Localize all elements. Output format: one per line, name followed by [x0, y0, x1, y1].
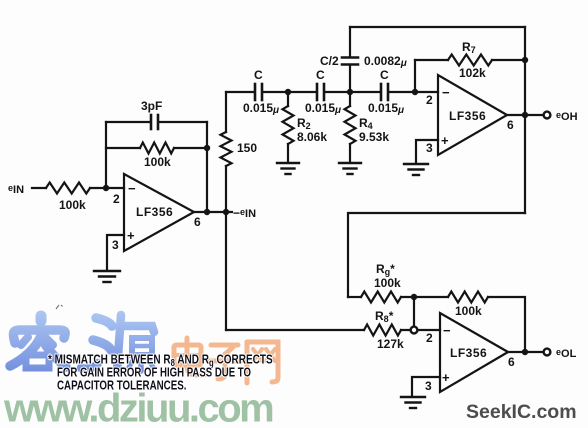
wire C/2 upper stem [349, 27, 351, 56]
svg-text:9.53k: 9.53k [359, 130, 389, 144]
svg-text:R7: R7 [462, 40, 476, 55]
resistor R2 8.06k [283, 106, 294, 144]
capacitor C/2 0.0082u [342, 58, 358, 65]
svg-text:C: C [380, 68, 389, 82]
node U1 output feedback [204, 209, 210, 215]
wire R4 to ground [349, 144, 351, 162]
wire R2 to ground [287, 144, 289, 162]
svg-text:LF356: LF356 [136, 205, 173, 219]
glyph zi [209, 345, 241, 379]
wire ladder segment 3 [325, 91, 380, 93]
wire feedback right vertical [206, 122, 208, 212]
wire R7 left vertical [414, 60, 416, 92]
op-amp U3 LF356 [440, 313, 508, 392]
svg-text:3pF: 3pF [141, 99, 162, 113]
svg-text:+: + [442, 370, 450, 385]
svg-text:100k: 100k [374, 276, 401, 290]
svg-text:C: C [316, 68, 325, 82]
svg-text:100k: 100k [144, 155, 171, 169]
ground R2 [277, 163, 299, 174]
wire R2 stem [287, 92, 289, 106]
wire input to pin2 [90, 187, 124, 189]
svg-text:2: 2 [426, 93, 433, 107]
wire pin3 U2 [416, 140, 438, 163]
node input junction [103, 185, 109, 191]
svg-text:100k: 100k [59, 198, 86, 212]
svg-text:−eIN: −eIN [233, 206, 256, 220]
svg-text:−: − [442, 85, 450, 100]
node U3 output [522, 349, 528, 355]
svg-text:6: 6 [508, 355, 515, 369]
watermark glyph rong [10, 316, 66, 368]
wire Rg left [348, 296, 361, 298]
wire pin3 U1 [107, 235, 124, 270]
node R7 right [522, 57, 528, 63]
capacitor C1 0.015u [255, 84, 262, 100]
wire eIN input [32, 187, 46, 189]
node U2 output [522, 112, 528, 118]
ground U3 [401, 397, 425, 408]
op-amp U1 LF356 [124, 174, 194, 251]
wire 3pF right [159, 121, 207, 123]
resistor R8* 127k [364, 325, 401, 336]
svg-text:100k: 100k [455, 304, 482, 318]
node ladder B [347, 89, 353, 95]
svg-text:3: 3 [425, 379, 432, 393]
wire R4 stem [349, 92, 351, 106]
wire cross line to lower section [348, 213, 525, 297]
wire Rg to R8 vertical [413, 297, 415, 330]
resistor 100k feedback [140, 143, 174, 154]
ground U1 [94, 271, 120, 282]
wire -eIN vertical rail [225, 92, 227, 132]
svg-text:LF356: LF356 [449, 109, 486, 123]
terminal eOH [544, 112, 551, 119]
svg-text:R8*: R8* [375, 309, 394, 324]
svg-text:0.015μ: 0.015μ [243, 101, 279, 116]
svg-text:127k: 127k [377, 337, 404, 351]
resistor R7 102k [448, 55, 492, 66]
resistor 100k input [46, 183, 90, 194]
op-amp U2 LF356 [438, 75, 507, 155]
wire feedback left vertical [105, 122, 107, 188]
wire right rail down [524, 27, 526, 213]
svg-text:2: 2 [426, 331, 433, 345]
svg-text:0.015μ: 0.015μ [368, 101, 404, 116]
wire U1 output [194, 211, 232, 213]
wire R8 left [226, 329, 364, 331]
wire ladder segment 2 [263, 91, 316, 93]
stray mark [56, 305, 63, 309]
wire ladder segment 1 [226, 91, 254, 93]
capacitor C2 0.015u [317, 84, 324, 100]
svg-text:C: C [254, 68, 263, 82]
wire R8 right to pin2 [401, 329, 440, 331]
svg-text:R2: R2 [297, 116, 311, 131]
svg-text:3: 3 [426, 141, 433, 155]
svg-text:eIN: eIN [8, 183, 24, 196]
wire R7 right [492, 59, 525, 61]
wire ladder segment 4 [389, 91, 438, 93]
svg-text:150: 150 [237, 141, 257, 155]
node R8 junction [411, 327, 418, 334]
svg-text:−: − [443, 323, 451, 338]
node ladder A [285, 89, 291, 95]
svg-text:0.0082μ: 0.0082μ [364, 54, 407, 69]
capacitor C3 0.015u [381, 84, 388, 100]
wire Rg right [401, 296, 448, 298]
note text mismatch [48, 352, 273, 393]
svg-text:eOH: eOH [556, 110, 578, 123]
svg-text:+: + [127, 228, 135, 243]
resistor 150 [221, 132, 232, 166]
wire 100k feedback right [174, 147, 207, 149]
svg-text:2: 2 [113, 192, 120, 206]
wire 100k feedback left [106, 147, 140, 149]
wire R7 left [415, 59, 448, 61]
resistor Rg* 100k [361, 292, 401, 303]
capacitor 3pF [151, 115, 158, 129]
node Rg junction [411, 294, 417, 300]
resistor 100k lower feedback [448, 292, 488, 303]
svg-text:6: 6 [507, 118, 514, 132]
wire 150 to R8 rail [225, 166, 227, 330]
glyph wang [247, 342, 278, 383]
node feedback right [204, 145, 210, 151]
ground R4 [339, 163, 361, 174]
wire 3pF left [106, 121, 150, 123]
svg-text:0.015μ: 0.015μ [305, 101, 341, 116]
svg-text:8.06k: 8.06k [297, 130, 327, 144]
svg-text:LF356: LF356 [450, 346, 487, 360]
svg-text:R4: R4 [359, 116, 373, 131]
wire top rail [350, 26, 525, 28]
ground U2 [404, 164, 428, 175]
node ladder C [412, 89, 418, 95]
svg-text:−: − [128, 181, 136, 196]
wire 100k right to output [488, 297, 525, 352]
svg-text:Rg*: Rg* [376, 262, 395, 277]
svg-text:C/2: C/2 [320, 54, 339, 68]
watermark dianziwang orange characters [174, 338, 278, 383]
wire pin3 U3 [412, 377, 440, 396]
watermark glyph yuan [81, 315, 154, 371]
glyph dian [174, 338, 207, 375]
node -eIN [223, 209, 229, 215]
svg-text:6: 6 [194, 215, 201, 229]
svg-text:3: 3 [112, 238, 119, 252]
svg-text:eOL: eOL [556, 347, 577, 360]
wire C/2 lower stem [349, 66, 351, 92]
svg-text:102k: 102k [459, 66, 486, 80]
svg-text:+: + [441, 133, 449, 148]
resistor R4 9.53k [345, 106, 356, 144]
wire U2 output [507, 114, 542, 116]
wire U3 output [508, 351, 542, 353]
terminal eOL [544, 349, 551, 356]
